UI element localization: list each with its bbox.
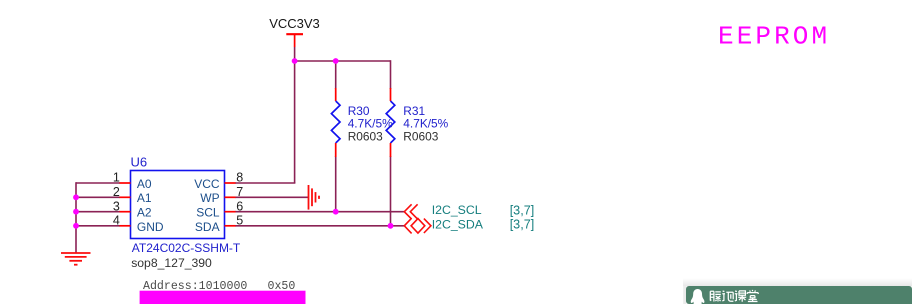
svg-text:U6: U6 xyxy=(131,154,148,169)
wire VCC top horizontal xyxy=(295,60,391,62)
svg-text:5: 5 xyxy=(236,213,243,227)
svg-text:A1: A1 xyxy=(137,191,152,205)
char tang xyxy=(747,290,758,302)
ground (WP pin, rotated) xyxy=(309,185,320,210)
svg-text:4: 4 xyxy=(113,213,120,227)
char xun xyxy=(722,291,733,301)
junction bus pin3 xyxy=(73,209,79,215)
svg-text:EEPROM: EEPROM xyxy=(718,22,830,52)
svg-text:7: 7 xyxy=(236,185,243,199)
pin 1 (A0) xyxy=(113,171,152,191)
svg-text:SDA: SDA xyxy=(195,220,220,234)
wire SDA net xyxy=(235,225,404,227)
junction VCC net at x294 xyxy=(292,58,298,64)
svg-text:[3,7]: [3,7] xyxy=(510,218,535,232)
wire pin2 to bus xyxy=(76,196,120,198)
svg-text:[3,7]: [3,7] xyxy=(510,203,535,217)
QQ penguin icon xyxy=(691,289,705,304)
Tencent classroom widget xyxy=(683,278,912,304)
svg-text:sop8_127_390: sop8_127_390 xyxy=(131,256,212,270)
resistor R30 xyxy=(331,88,340,157)
wire SCL net xyxy=(235,211,404,213)
junction R31 bottom on SDA xyxy=(388,223,394,229)
pin 6 (SCL) xyxy=(196,199,243,219)
junction bus pin2 xyxy=(73,194,79,200)
svg-text:A2: A2 xyxy=(137,206,152,220)
wire VCC vertical (to pin 8 corner) xyxy=(294,47,296,183)
resistor R31 xyxy=(386,88,395,157)
text Tencent Classroom (CJK strokes) xyxy=(710,290,758,302)
svg-text:VCC: VCC xyxy=(194,177,220,191)
svg-text:1: 1 xyxy=(113,171,120,185)
ground (left bus) xyxy=(61,253,91,265)
pin 5 (SDA) xyxy=(195,213,243,234)
svg-text:A0: A0 xyxy=(137,177,152,191)
svg-text:GND: GND xyxy=(137,220,164,234)
power VCC3V3 xyxy=(269,16,320,47)
svg-text:R0603: R0603 xyxy=(403,130,438,144)
svg-text:2: 2 xyxy=(113,185,120,199)
junction bus pin4 xyxy=(73,223,79,229)
pin 3 (A2) xyxy=(113,199,152,219)
wire R30 top drop xyxy=(335,61,337,89)
svg-text:SCL: SCL xyxy=(196,206,220,220)
svg-text:R30: R30 xyxy=(348,104,370,118)
wire pin7 to ground xyxy=(235,196,308,198)
pin 2 (A1) xyxy=(113,185,152,205)
wire pin3 to bus xyxy=(76,211,120,213)
IC U6 body xyxy=(131,171,225,239)
junction R30 top xyxy=(333,58,339,64)
svg-text:R0603: R0603 xyxy=(348,130,383,144)
port I2C_SDA chevrons xyxy=(404,218,431,233)
char teng xyxy=(710,291,721,301)
char ke xyxy=(735,291,746,302)
svg-text:I2C_SCL: I2C_SCL xyxy=(432,203,482,217)
wire R31 top drop xyxy=(390,60,392,89)
port I2C_SCL chevrons xyxy=(404,204,417,219)
svg-text:VCC3V3: VCC3V3 xyxy=(269,16,320,31)
pin 4 (GND) xyxy=(113,213,164,234)
svg-text:4.7K/5%: 4.7K/5% xyxy=(403,117,448,131)
svg-text:WP: WP xyxy=(200,191,219,205)
wire pin8 to VCC xyxy=(235,182,295,184)
svg-text:3: 3 xyxy=(113,199,120,213)
junction R30 bottom on SCL xyxy=(333,209,339,215)
svg-text:R31: R31 xyxy=(403,104,425,118)
wire pin4 to bus xyxy=(76,225,120,227)
svg-text:I2C_SDA: I2C_SDA xyxy=(432,218,484,232)
svg-text:8: 8 xyxy=(236,171,243,185)
wire R31 bottom to SDA net xyxy=(390,156,392,226)
pin 7 (WP) xyxy=(200,185,243,205)
svg-text:AT24C02C-SSHM-T: AT24C02C-SSHM-T xyxy=(132,241,241,255)
svg-text:4.7K/5%: 4.7K/5% xyxy=(348,117,393,131)
pin 8 (VCC) xyxy=(194,171,243,191)
wire pin1 to bus xyxy=(76,182,120,184)
wire R30 bottom to SCL net xyxy=(335,156,337,212)
highlight bar magenta xyxy=(140,291,306,304)
svg-text:6: 6 xyxy=(236,199,243,213)
wire left bus vertical to ground xyxy=(75,182,77,253)
